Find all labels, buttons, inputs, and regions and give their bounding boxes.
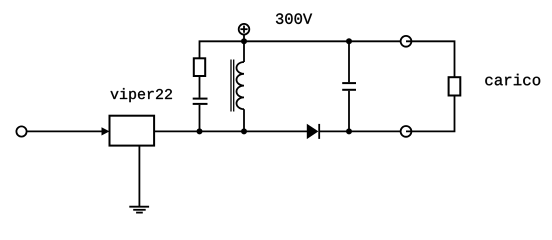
transformer core: [231, 60, 234, 112]
wire node E to resistor R1 via top-left corner: [200, 41, 245, 58]
wire C2 down to node C: [348, 91, 350, 132]
terminal J2 (output bottom): [401, 126, 412, 137]
wire load R2 to terminal J3 via top-right corner: [406, 41, 455, 77]
wire node D down to capacitor C2: [348, 41, 350, 82]
wire node E down to transformer L1: [243, 41, 245, 62]
label viper22: [111, 88, 172, 102]
node B junction: [241, 128, 247, 134]
wire C1 down to node A: [199, 105, 201, 131]
wire U1 to ground: [138, 146, 140, 207]
label 300V: [276, 13, 312, 24]
wire J2 to load R2 via bottom-right corner: [406, 96, 455, 132]
arrowhead at U1 input: [102, 127, 110, 135]
ground: [129, 207, 149, 213]
terminal J1 (input): [16, 126, 26, 136]
node A junction: [197, 128, 203, 134]
transformer primary winding L1: [237, 62, 245, 109]
label carico: [485, 74, 540, 86]
wire L1 down to node B: [243, 109, 245, 131]
wire node A to node B: [200, 130, 245, 132]
node E junction: [241, 38, 247, 44]
wire R1 to capacitor C1: [199, 76, 201, 98]
node C junction: [346, 128, 352, 134]
capacitor C2: [342, 83, 356, 90]
diode D1: [307, 124, 319, 139]
wire J3 to node D: [349, 40, 400, 42]
wire D1 cathode to node C: [319, 130, 349, 132]
wire U1 output to node A: [154, 130, 199, 132]
node D junction: [346, 38, 352, 44]
wire J1 to U1 input: [27, 130, 104, 132]
resistor R1 (snubber): [194, 58, 205, 76]
terminal +300V: [239, 24, 250, 41]
terminal J3 (output top): [401, 36, 412, 47]
wire node B to diode D1: [244, 130, 307, 132]
wire node D to node E: [244, 40, 349, 42]
load resistor R2 (carico): [449, 77, 461, 95]
capacitor C1 (snubber): [193, 99, 208, 104]
wire node C to terminal J2: [349, 130, 400, 132]
IC U1 viper22 box: [110, 116, 155, 146]
